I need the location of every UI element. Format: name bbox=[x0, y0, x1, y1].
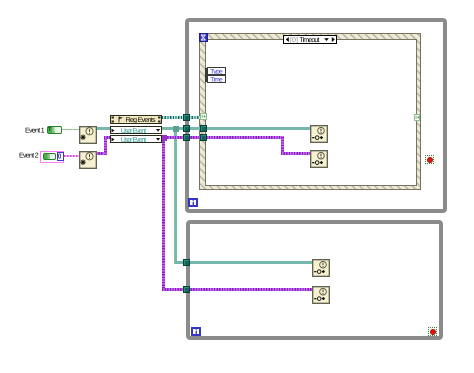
svg-text:User Event: User Event bbox=[121, 137, 146, 143]
svg-text:Type: Type bbox=[210, 69, 223, 76]
svg-text:T: T bbox=[48, 127, 52, 131]
svg-text:Time: Time bbox=[210, 77, 223, 83]
svg-text:Event 2: Event 2 bbox=[19, 152, 39, 159]
svg-text:F: F bbox=[54, 127, 58, 131]
svg-text:[0]: [0] bbox=[290, 36, 298, 43]
svg-text:Timeout: Timeout bbox=[299, 36, 319, 43]
svg-text:Event 1: Event 1 bbox=[25, 128, 45, 135]
svg-text:Reg Events: Reg Events bbox=[126, 117, 157, 123]
svg-text:User Event: User Event bbox=[121, 128, 146, 134]
